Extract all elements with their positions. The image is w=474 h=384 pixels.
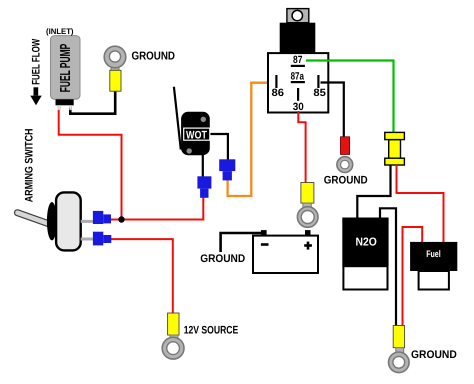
svg-text:(INLET): (INLET) [46,27,74,36]
svg-text:85: 85 [313,87,326,99]
svg-text:GROUND: GROUND [132,50,176,62]
svg-text:87a: 87a [291,71,305,83]
svg-text:12V SOURCE: 12V SOURCE [184,325,239,337]
svg-text:GROUND: GROUND [411,349,457,361]
svg-text:Fuel: Fuel [426,249,441,260]
svg-text:N2O: N2O [356,237,377,249]
svg-text:87: 87 [293,54,303,66]
svg-text:WOT: WOT [186,130,207,142]
svg-text:FUEL FLOW: FUEL FLOW [31,38,43,84]
svg-text:GROUND: GROUND [200,253,245,265]
svg-text:GROUND: GROUND [324,174,368,186]
svg-text:30: 30 [293,101,304,113]
svg-text:86: 86 [272,87,285,99]
svg-text:FUEL PUMP: FUEL PUMP [58,44,74,93]
svg-text:ARMING SWITCH: ARMING SWITCH [24,128,36,202]
